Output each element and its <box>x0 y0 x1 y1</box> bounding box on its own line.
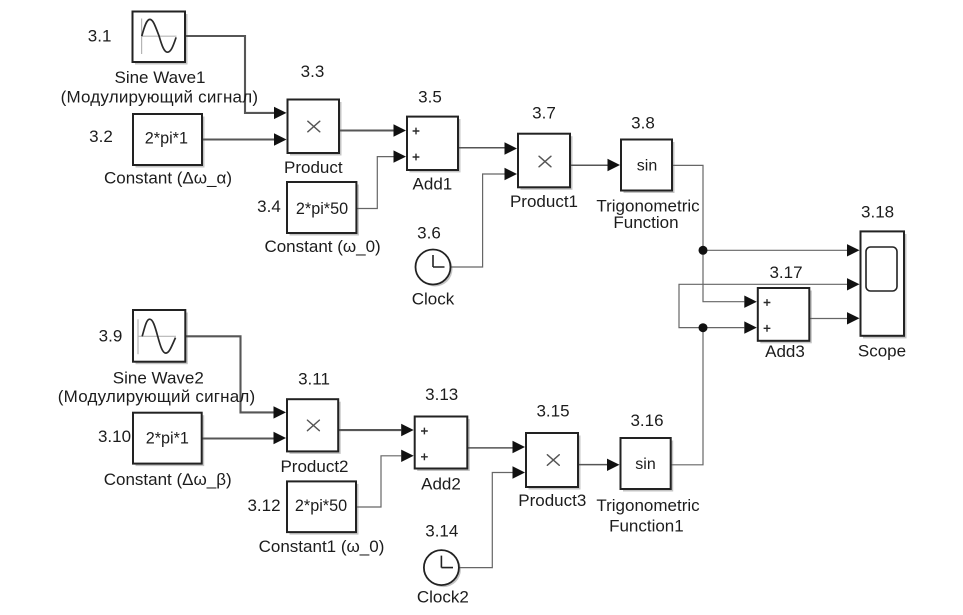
svg-text:Product2: Product2 <box>280 457 348 476</box>
svg-text:Constant (ω_0): Constant (ω_0) <box>264 237 380 256</box>
svg-text:(Модулирующий сигнал): (Модулирующий сигнал) <box>61 88 259 107</box>
svg-text:3.2: 3.2 <box>89 127 113 146</box>
svg-text:Sine Wave1: Sine Wave1 <box>114 68 205 87</box>
svg-text:3.11: 3.11 <box>298 370 330 389</box>
svg-text:3.8: 3.8 <box>631 114 655 133</box>
svg-text:3.5: 3.5 <box>418 88 442 107</box>
svg-text:3.4: 3.4 <box>257 197 281 216</box>
svg-text:3.9: 3.9 <box>99 327 123 346</box>
svg-text:3.14: 3.14 <box>425 522 458 541</box>
svg-text:3.12: 3.12 <box>247 496 280 515</box>
svg-text:3.7: 3.7 <box>532 104 556 123</box>
svg-text:Constant1 (ω_0): Constant1 (ω_0) <box>259 537 385 556</box>
svg-text:Product3: Product3 <box>518 491 586 510</box>
svg-text:Add3: Add3 <box>765 342 805 361</box>
svg-text:Constant (Δω_α): Constant (Δω_α) <box>104 169 232 188</box>
svg-text:Function: Function <box>613 213 678 232</box>
svg-text:Product1: Product1 <box>510 192 578 211</box>
svg-text:2*pi*50: 2*pi*50 <box>295 497 347 515</box>
svg-text:3.15: 3.15 <box>536 402 569 421</box>
svg-text:sin: sin <box>635 456 655 473</box>
svg-text:Add2: Add2 <box>421 475 461 494</box>
svg-text:Constant (Δω_β): Constant (Δω_β) <box>104 470 232 489</box>
svg-text:(Модулирующий сигнал): (Модулирующий сигнал) <box>58 387 256 406</box>
svg-text:Sine Wave2: Sine Wave2 <box>113 368 204 387</box>
svg-text:3.10: 3.10 <box>98 427 131 446</box>
svg-text:3.3: 3.3 <box>301 62 325 81</box>
svg-text:Scope: Scope <box>858 342 906 361</box>
svg-text:Clock2: Clock2 <box>417 588 469 607</box>
svg-text:2*pi*50: 2*pi*50 <box>296 200 348 218</box>
svg-text:Function1: Function1 <box>609 517 684 536</box>
svg-text:Trigonometric: Trigonometric <box>596 496 700 515</box>
svg-text:3.16: 3.16 <box>630 411 663 430</box>
svg-text:Add1: Add1 <box>413 175 453 194</box>
svg-text:3.6: 3.6 <box>417 224 441 243</box>
svg-text:3.13: 3.13 <box>425 385 458 404</box>
svg-text:3.18: 3.18 <box>861 203 894 222</box>
svg-text:sin: sin <box>637 157 657 174</box>
svg-text:3.17: 3.17 <box>769 263 802 282</box>
svg-text:Product: Product <box>284 158 343 177</box>
svg-text:3.1: 3.1 <box>88 27 112 46</box>
svg-text:2*pi*1: 2*pi*1 <box>145 130 188 148</box>
svg-text:2*pi*1: 2*pi*1 <box>146 429 189 447</box>
svg-text:Clock: Clock <box>412 290 455 309</box>
